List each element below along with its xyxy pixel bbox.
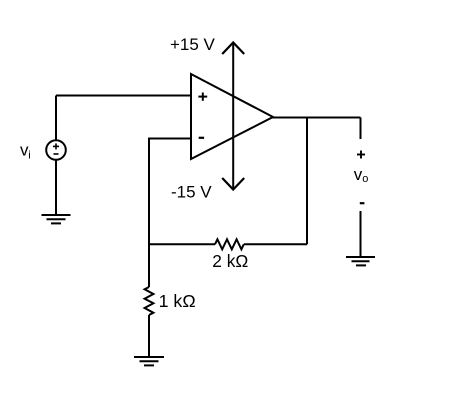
svg-text:1 kΩ: 1 kΩ — [159, 291, 196, 311]
svg-text:o: o — [362, 173, 368, 185]
svg-text:i: i — [28, 150, 30, 162]
svg-text:2 kΩ: 2 kΩ — [212, 251, 248, 271]
svg-text:+15 V: +15 V — [170, 35, 216, 54]
svg-text:-15 V: -15 V — [171, 183, 212, 202]
